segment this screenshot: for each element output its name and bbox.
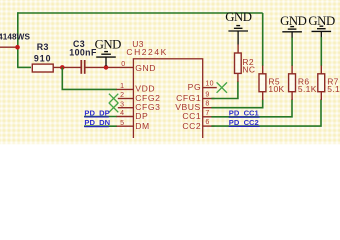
pin 8 VBUS stub + wire to R5 xyxy=(203,107,215,109)
resistor R2 pin top xyxy=(237,45,239,54)
resistor R5 xyxy=(259,74,266,92)
svg-text:DM: DM xyxy=(135,121,149,131)
wire GND3 to R6 xyxy=(291,38,293,67)
svg-text:100nF: 100nF xyxy=(69,48,97,58)
svg-text:PD_DP: PD_DP xyxy=(84,108,109,117)
svg-text:PG: PG xyxy=(188,82,202,92)
svg-text:PD_CC2: PD_CC2 xyxy=(229,118,259,127)
ground GND2 (above C3 node) xyxy=(96,52,116,66)
svg-text:8: 8 xyxy=(205,101,209,108)
wire C3 to U3 pin0 xyxy=(85,66,134,68)
svg-text:CC1: CC1 xyxy=(182,111,201,121)
svg-text:PD_CC1: PD_CC1 xyxy=(229,109,260,118)
svg-text:2: 2 xyxy=(120,92,124,99)
no-connect X pin10 xyxy=(217,82,227,92)
svg-text:R3: R3 xyxy=(37,42,49,52)
resistor R7 pin bottom xyxy=(320,92,322,100)
resistor R6 xyxy=(289,74,296,92)
resistor R5 pin bottom xyxy=(262,92,264,100)
svg-text:GND: GND xyxy=(225,10,252,24)
resistor R2 pin bottom xyxy=(237,73,239,82)
svg-text:GND: GND xyxy=(308,14,335,28)
pin 5 DM wire xyxy=(84,125,117,127)
pin 3 CFG3 stub xyxy=(118,107,134,109)
wire GND4 to R7 xyxy=(320,37,322,66)
svg-text:CH224K: CH224K xyxy=(126,47,167,57)
wire top rail xyxy=(18,12,263,14)
resistor R7 pin top xyxy=(320,66,322,74)
svg-text:0: 0 xyxy=(121,61,125,68)
wire left vertical xyxy=(17,12,19,67)
ground GND1 (above R2) xyxy=(228,26,248,45)
pin 4 DP wire xyxy=(84,116,117,118)
diode D1 pin 1N4148WS xyxy=(0,46,18,48)
wire to R3 xyxy=(17,66,31,68)
svg-text:4: 4 xyxy=(120,110,124,117)
svg-text:5: 5 xyxy=(120,120,124,127)
pin 6 CC2 stub + wire to R7 xyxy=(203,125,215,127)
junction dot C xyxy=(104,65,109,70)
no-connect X pin2 xyxy=(109,94,118,103)
resistor R2 xyxy=(235,53,242,73)
ground GND4 (above R7) xyxy=(312,26,332,37)
pin 7 CC1 stub + wire to R6 xyxy=(203,116,215,118)
svg-text:PD_DN: PD_DN xyxy=(84,118,110,127)
svg-text:910: 910 xyxy=(34,54,52,64)
capacitor C3 xyxy=(80,60,82,74)
svg-text:1N4148WS: 1N4148WS xyxy=(0,33,31,42)
ground GND3 (above R6) xyxy=(282,27,302,38)
resistor R5 pin top xyxy=(262,66,264,74)
svg-text:DP: DP xyxy=(135,111,148,121)
svg-text:6: 6 xyxy=(205,119,209,126)
svg-text:5.1K: 5.1K xyxy=(298,84,317,94)
wire down from B xyxy=(62,67,117,89)
pin 1 VDD wire stub xyxy=(117,88,134,90)
svg-text:GND: GND xyxy=(280,14,307,28)
resistor R6 pin bottom xyxy=(291,92,293,100)
resistor R6 pin top xyxy=(291,66,293,74)
svg-text:9: 9 xyxy=(205,91,209,98)
pin 10 PG stub xyxy=(203,87,217,89)
junction dot A xyxy=(15,45,20,50)
pin 9 CFG1 stub + wire to R2 xyxy=(203,98,215,100)
junction dot B xyxy=(60,65,65,70)
svg-text:7: 7 xyxy=(205,110,209,117)
svg-text:GND: GND xyxy=(135,63,156,73)
wire VCC rail to R5 xyxy=(262,13,264,66)
op chip U3 CH224K body xyxy=(133,59,202,144)
resistor R3 xyxy=(32,64,53,72)
svg-text:3: 3 xyxy=(120,101,124,108)
svg-text:10: 10 xyxy=(205,80,214,87)
svg-text:GND: GND xyxy=(95,38,122,52)
pin 2 CFG2 stub xyxy=(118,98,134,100)
wire R3 to C3 xyxy=(53,66,81,68)
svg-text:NC: NC xyxy=(242,65,255,75)
svg-text:1: 1 xyxy=(120,83,124,90)
no-connect X pin3 xyxy=(109,103,118,112)
svg-text:5.1K: 5.1K xyxy=(327,84,340,94)
resistor R7 xyxy=(318,74,325,92)
svg-text:10K: 10K xyxy=(268,84,284,94)
svg-text:CC2: CC2 xyxy=(182,121,201,131)
